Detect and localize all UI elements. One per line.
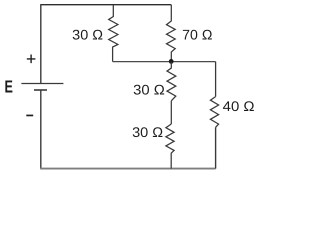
resistor R4 30ohm bottom — [166, 124, 174, 169]
label minus polarity — [26, 115, 33, 117]
svg-text:30 Ω: 30 Ω — [133, 82, 165, 98]
wire left branch lower — [40, 90, 42, 169]
svg-text:30 Ω: 30 Ω — [72, 27, 103, 43]
wire left branch upper — [40, 4, 42, 83]
svg-text:40 Ω: 40 Ω — [223, 98, 255, 114]
wire between R3 and R4 — [170, 101, 172, 124]
label plus polarity — [27, 55, 36, 64]
node junction dot — [169, 59, 174, 64]
resistor R3 30ohm middle — [167, 62, 176, 101]
resistor R2 70ohm — [167, 5, 176, 62]
wire right branch upper — [215, 62, 217, 97]
battery E top plate — [21, 83, 63, 85]
svg-text:30 Ω: 30 Ω — [132, 124, 163, 140]
resistor R1 30ohm top-left — [109, 5, 118, 62]
wire right branch lower — [215, 127, 217, 168]
resistor R5 40ohm — [210, 97, 218, 128]
svg-text:E: E — [5, 76, 13, 96]
battery E bottom plate — [34, 89, 47, 91]
svg-text:70 Ω: 70 Ω — [182, 27, 212, 43]
bottom wire — [40, 168, 215, 170]
wire middle rail — [113, 61, 216, 63]
top wire — [41, 4, 172, 6]
